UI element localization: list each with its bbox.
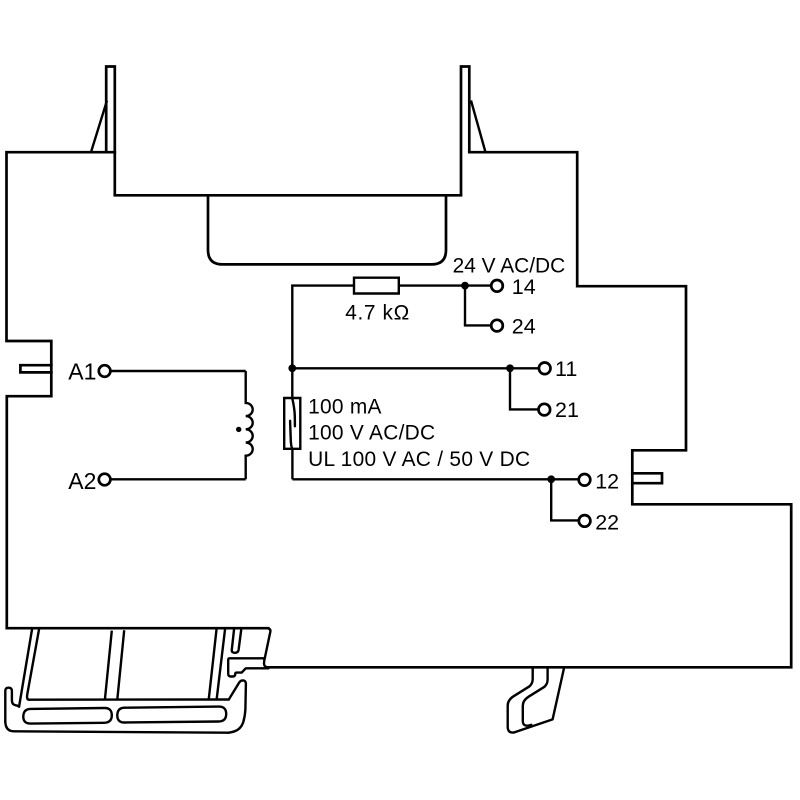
foot left edge outer [19,630,32,707]
right clip outer [508,667,565,732]
svg-text:A1: A1 [68,358,96,384]
terminal 21 [539,404,551,416]
terminal A2 [99,474,111,486]
foot rib middle 1 [105,631,112,700]
svg-text:A2: A2 [68,468,96,494]
svg-text:24: 24 [512,314,536,338]
junction node 12/22 [547,475,555,483]
wire fuse-bottom [291,449,293,480]
svg-text:UL 100 V AC / 50 V DC: UL 100 V AC / 50 V DC [308,448,530,471]
latch slot [232,630,241,653]
right clip inner [523,667,548,725]
svg-text:14: 14 [512,275,536,299]
foot left edge inner [27,630,39,700]
svg-text:21: 21 [555,398,579,422]
wire fuse-12 [292,478,578,480]
left tab spring [91,101,107,152]
fuse element upper [292,398,295,426]
foot rib right 2 [217,630,225,700]
svg-text:12: 12 [595,469,619,493]
left slot notch [20,365,51,372]
terminal 11 [539,363,551,375]
svg-text:24 V AC/DC: 24 V AC/DC [453,255,566,278]
foot rib middle 2 [117,630,124,699]
foot bar slot right [117,707,226,723]
foot bar right finger [228,680,246,732]
left mounting tab [106,67,115,195]
coil polarity dot [236,427,241,432]
branch to 22 [551,479,578,520]
junction node 14/24 [461,282,469,290]
housing outline left [7,152,115,628]
wire resistor-node [399,284,491,286]
wire coil-A2 [110,478,245,480]
branch to 21 [510,368,538,409]
svg-text:100 V AC/DC: 100 V AC/DC [308,422,435,445]
housing outline right [269,152,792,667]
svg-text:11: 11 [555,357,577,381]
right slot notch [632,473,662,483]
terminal 14 [491,280,503,292]
wire A1-coil [110,370,245,372]
terminal 24 [491,320,503,332]
junction node 11/21 [506,364,514,372]
housing bottom edge [7,627,268,630]
foot bar bottom edge [5,721,228,733]
relay body [208,195,446,264]
latch notch outline [228,658,268,676]
foot bar slot left [23,708,112,724]
resistor 4.7 kOhm [354,278,399,294]
terminal 22 [579,515,591,527]
svg-text:22: 22 [595,511,619,535]
right mounting tab [461,67,469,195]
terminal A1 [99,365,111,377]
right tab spring [471,101,485,152]
branch to 24 [465,286,491,326]
foot bar top edge [29,698,229,701]
foot left hook [5,688,19,722]
fuse element lower [290,421,292,449]
svg-text:4.7 kΩ: 4.7 kΩ [345,302,410,325]
wire node-fuse [291,368,293,398]
coil K1 [246,371,253,479]
latch flag right edge [264,628,270,667]
terminal 12 [579,474,591,486]
fuse body [284,398,300,449]
housing top shelf [115,194,461,197]
foot rib right 1 [209,630,217,700]
wire node-11 [292,367,538,369]
svg-text:100 mA: 100 mA [308,395,382,418]
wire node-resistor [292,286,354,369]
junction node coil-fuse [288,364,296,372]
